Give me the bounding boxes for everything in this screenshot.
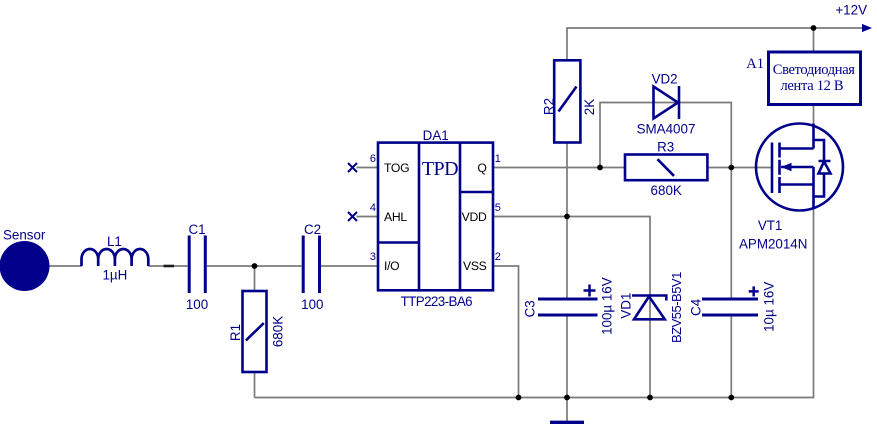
node junction C3/ground rail <box>564 395 570 401</box>
svg-text:680K: 680K <box>651 183 682 198</box>
wire VD2 branch and drops <box>600 103 731 300</box>
svg-text:1: 1 <box>495 153 501 165</box>
wire R1 bottom to ground rail <box>254 372 256 398</box>
node junction VSS/rail <box>516 395 522 401</box>
svg-text:C1: C1 <box>188 222 205 237</box>
svg-text:Q: Q <box>477 161 486 175</box>
LED strip module A1 box <box>769 52 861 105</box>
svg-text:A1: A1 <box>746 56 764 72</box>
svg-text:SMA4007: SMA4007 <box>637 122 696 137</box>
svg-text:C4: C4 <box>689 298 704 316</box>
wire sensor to L1 <box>48 265 82 267</box>
capacitor C4 <box>702 299 758 315</box>
C4 plus sign <box>749 286 759 296</box>
+12V power arrow <box>862 24 872 32</box>
svg-text:+12V: +12V <box>835 3 867 18</box>
svg-text:VT1: VT1 <box>758 218 783 233</box>
wire pin 4 stub <box>357 216 379 218</box>
wire L1 to C1 <box>148 265 187 267</box>
svg-text:3: 3 <box>370 251 376 263</box>
svg-text:VD2: VD2 <box>652 71 678 86</box>
svg-text:лента 12 В: лента 12 В <box>780 78 843 94</box>
wire C4 bottom to rail <box>730 315 732 398</box>
svg-text:Светодиодная: Светодиодная <box>773 62 856 78</box>
svg-text:100: 100 <box>186 297 208 312</box>
wire C1 to C2 through node <box>207 265 302 267</box>
resistor R1 <box>243 291 267 372</box>
node junction VD1/rail <box>647 395 653 401</box>
svg-text:2: 2 <box>495 251 501 263</box>
svg-text:680K: 680K <box>271 316 286 347</box>
svg-text:5: 5 <box>495 202 501 214</box>
wire C2 to IC pin 3 <box>321 265 378 267</box>
svg-text:4: 4 <box>370 202 376 214</box>
wire +12V top rail <box>567 28 863 60</box>
svg-text:TPD: TPD <box>422 158 458 180</box>
capacitor C1 <box>189 236 205 294</box>
svg-text:VDD: VDD <box>462 210 487 224</box>
node junction R3/gate/C4 <box>728 165 734 171</box>
wire ground stub <box>566 398 568 422</box>
no-connect X pin 6 <box>348 163 357 172</box>
capacitor C2 <box>303 236 319 294</box>
svg-text:APM2014N: APM2014N <box>739 236 807 251</box>
svg-text:DA1: DA1 <box>423 128 449 143</box>
inductor L1 <box>82 249 149 266</box>
svg-text:100µ 16V: 100µ 16V <box>600 277 615 335</box>
node junction VD2/Q <box>597 165 603 171</box>
transistor VT1 MOSFET <box>756 124 843 211</box>
wire IC pin 1 Q to R3 <box>493 167 625 169</box>
VT1 gate arrow <box>781 163 792 172</box>
svg-text:L1: L1 <box>107 234 122 249</box>
svg-text:100: 100 <box>301 297 323 312</box>
svg-text:10µ 16V: 10µ 16V <box>761 282 776 332</box>
wire IC pin 5 VDD to VD1 branch <box>493 217 650 398</box>
capacitor C3 <box>538 299 598 315</box>
no-connect X pin 4 <box>348 212 357 221</box>
svg-text:TTP223-BA6: TTP223-BA6 <box>401 294 473 309</box>
wire bottom ground rail <box>255 209 814 398</box>
tick mark on sensor wire <box>164 265 175 268</box>
op IC DA1 body <box>378 143 493 291</box>
wire +12V node to A1 top <box>813 28 815 52</box>
node junction +12V/A1 <box>811 25 817 31</box>
svg-text:R1: R1 <box>228 324 243 341</box>
wire A1 bottom to VT1 drain <box>813 105 815 125</box>
svg-text:AHL: AHL <box>384 210 407 224</box>
svg-text:6: 6 <box>370 153 376 165</box>
svg-text:VSS: VSS <box>463 259 487 273</box>
wire R2 bottom to C3 top <box>566 143 568 300</box>
node junction R2/VDD <box>564 214 570 220</box>
diode VD2 <box>654 86 680 119</box>
wire C3 bottom to rail <box>566 315 568 398</box>
svg-text:Sensor: Sensor <box>3 227 46 242</box>
svg-text:C2: C2 <box>304 222 321 237</box>
resistor R2 <box>554 60 580 142</box>
ground symbol <box>550 421 584 424</box>
wire pin 6 stub <box>357 167 379 169</box>
svg-text:I/O: I/O <box>384 259 399 273</box>
node junction C4/rail <box>728 395 734 401</box>
svg-text:1µH: 1µH <box>102 268 127 283</box>
node junction at C1/R1 <box>252 263 258 269</box>
svg-text:2K: 2K <box>582 99 597 115</box>
wire node to R1 top <box>254 266 256 291</box>
wire R3 to VT1 gate <box>707 167 771 169</box>
svg-text:C3: C3 <box>523 300 538 317</box>
resistor R3 <box>625 155 707 181</box>
svg-text:VD1: VD1 <box>619 293 634 319</box>
svg-text:R3: R3 <box>657 140 674 155</box>
wire IC pin 2 VSS to rail <box>493 266 519 398</box>
svg-text:BZV55-B5V1: BZV55-B5V1 <box>669 272 684 343</box>
sensor electrode <box>0 241 50 291</box>
svg-text:R2: R2 <box>542 98 557 115</box>
C3 plus sign <box>584 285 596 297</box>
zener diode VD1 <box>632 296 666 320</box>
svg-text:TOG: TOG <box>384 161 409 175</box>
